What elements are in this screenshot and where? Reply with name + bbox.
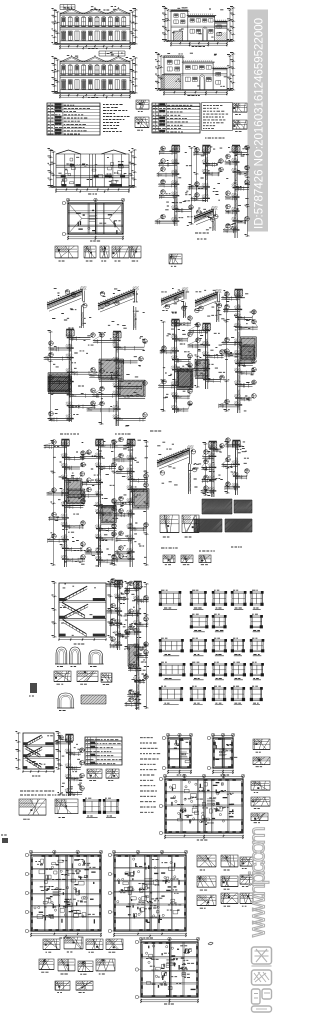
railing detail T5 (160, 515, 199, 537)
wall section detail Q1 (158, 287, 193, 413)
villa elevation B1 (162, 7, 235, 47)
front elevation drawing A1 (52, 5, 138, 50)
wall section detail J (155, 145, 194, 226)
detail row U5 (54, 671, 112, 684)
nipic watermark logo (252, 947, 272, 1012)
panel T6 (194, 519, 252, 532)
misc details Z1 (39, 937, 123, 992)
notes text left (103, 105, 130, 132)
subtitle marks (205, 137, 225, 139)
notes text right (202, 103, 233, 131)
pen mark Z3 (208, 942, 213, 945)
detail X6 (251, 781, 270, 823)
wall detail T2 (201, 441, 225, 497)
labels row R (60, 431, 161, 434)
column details W2 (55, 734, 85, 796)
roof plan (62, 198, 125, 241)
wall section detail Q2 (188, 289, 226, 389)
arch detail U6 (57, 693, 106, 711)
svg-text:www.nipic.com: www.nipic.com (245, 828, 270, 938)
plan details Y3 (197, 855, 253, 908)
wall section detail Q3 (219, 289, 258, 413)
details W6 (19, 798, 119, 819)
louver panel T4 (202, 499, 252, 514)
railing stair detail W1 (16, 732, 61, 777)
basement plan Z2 (135, 937, 200, 1004)
schedule table left (47, 103, 100, 135)
watermark ID stripe (248, 10, 269, 232)
eave detail T1 (157, 442, 201, 494)
wall section detail S1 (44, 439, 86, 567)
stair section (52, 582, 113, 645)
small plan X2 (207, 733, 237, 775)
note marks T7 (161, 547, 242, 565)
note marks N2 (195, 233, 209, 239)
wall section detail O (44, 286, 99, 422)
stair details col U3 (125, 581, 150, 710)
rear elevation drawing A2 (52, 51, 138, 99)
margin mark U7 (29, 683, 37, 696)
window frame detail grid (159, 590, 265, 704)
parapet slope detail M (194, 206, 218, 231)
small bits W4 (87, 769, 119, 780)
floor plan Y2 (108, 850, 188, 938)
wall section detail L (223, 145, 250, 238)
svg-text:ID:5787426 NO:2016031612465952: ID:5787426 NO:20160316124659522000 (254, 18, 266, 229)
villa elevation B2 (155, 53, 235, 96)
margin mark W7 (1, 835, 8, 843)
arched door details (55, 647, 104, 667)
floor plan Y1 (25, 850, 103, 938)
wall section detail S2 (80, 439, 118, 567)
wall detail T3 (222, 438, 250, 495)
detail table W3 (85, 737, 122, 765)
ground floor plan X5 (159, 774, 245, 840)
wall section detail P (87, 286, 148, 426)
door sketch left (135, 100, 149, 130)
wall section detail S3 (112, 437, 149, 567)
wall section detail K (188, 145, 224, 202)
notes col X3 (140, 738, 160, 813)
stair details col U2 (106, 578, 130, 650)
small plan X1 (162, 733, 193, 775)
eave details row (55, 246, 141, 261)
detail X4 (253, 739, 270, 767)
small detail N (169, 254, 182, 266)
door sketch right (233, 103, 247, 131)
schedule table right (152, 103, 200, 133)
nipic watermark text (245, 828, 270, 938)
divider row W5 (20, 791, 75, 795)
building section 1-1 (48, 149, 137, 195)
